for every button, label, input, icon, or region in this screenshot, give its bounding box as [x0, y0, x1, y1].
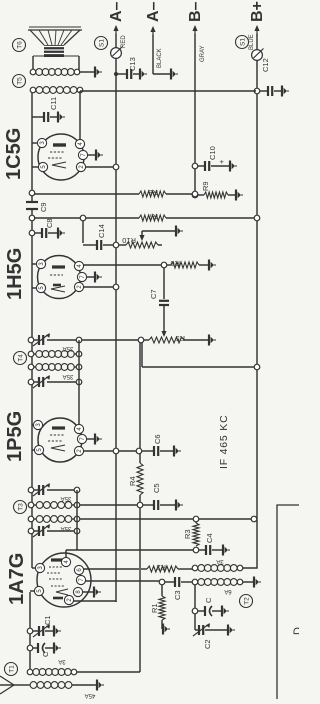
capacitor C antenna trimmer [27, 645, 33, 651]
resistor R10 volume [119, 244, 127, 246]
svg-text:R4: R4 [128, 476, 137, 486]
svg-text:R2: R2 [156, 563, 166, 572]
svg-text:C12: C12 [261, 58, 270, 72]
svg-text:C4: C4 [205, 533, 214, 543]
svg-text:S1: S1 [98, 39, 105, 47]
svg-text:35A: 35A [63, 345, 74, 351]
resistor R8 [29, 190, 35, 196]
tube 1H5G envelope [38, 256, 81, 299]
svg-text:R1: R1 [150, 603, 159, 613]
label T1 [5, 663, 18, 676]
svg-text:1P5G: 1P5G [4, 411, 26, 462]
svg-text:C1: C1 [43, 615, 52, 625]
wire T4 trimmer to R5 junction [82, 339, 140, 341]
resistor R6 [167, 264, 172, 266]
wire T3 link to 1A7G grid line [76, 531, 78, 550]
pin 4 1A7G [61, 557, 70, 566]
capacitor C13 [116, 73, 126, 75]
tube 1P5G filament [51, 445, 65, 451]
wire T5 primary to B+ [80, 90, 256, 92]
svg-text:T6: T6 [16, 41, 23, 49]
pin 3 1A7G [35, 563, 44, 572]
svg-text:BLUE: BLUE [249, 34, 255, 50]
tube 1A7G filament [56, 589, 68, 595]
svg-text:C14: C14 [97, 224, 106, 238]
resistor R4 [137, 502, 143, 508]
pin 3 1C5G [37, 138, 46, 147]
capacitor C14 [83, 244, 96, 246]
svg-text:6A: 6A [224, 588, 231, 594]
wire T1 secondary to AVC bus [77, 671, 141, 673]
wire T3 coil1 to C5 junction [80, 504, 138, 506]
pin 5 1A7G [34, 586, 43, 595]
resistor R5 volume [144, 339, 150, 341]
tube 1A7G osc anode [53, 597, 63, 600]
capacitor C9 [26, 208, 38, 210]
svg-text:C13: C13 [128, 57, 137, 71]
wire 1C5G pin3 to bus [32, 142, 38, 144]
oscillator coil T2 winding 1 [192, 565, 198, 571]
tube 1C5G filament [52, 162, 66, 168]
wire 1H5G pin5 to bus [32, 287, 37, 289]
svg-text:S1: S1 [239, 38, 246, 46]
pin 7 1P5G [77, 434, 86, 443]
tube 1C5G grids [50, 151, 64, 153]
svg-text:R5: R5 [175, 334, 185, 343]
svg-text:1A7G: 1A7G [6, 553, 28, 605]
resistor R9 [192, 192, 198, 198]
wire 1A7G pin7 line [86, 580, 161, 582]
junction C14 filament bus [113, 242, 119, 248]
svg-text:45A: 45A [85, 692, 96, 698]
junction R3 C4 [193, 547, 199, 553]
tube 1A7G plate [51, 558, 64, 561]
svg-text:GRAY: GRAY [200, 45, 206, 62]
svg-text:T1: T1 [8, 665, 15, 673]
ground T5 secondary [79, 71, 94, 73]
capacitor C4 [199, 549, 206, 551]
wire 1P5G pin3 to bus [32, 424, 34, 426]
pin 4 1H5G [74, 261, 83, 270]
label T2 [240, 595, 253, 608]
wire 1A7G pin2 to bus end [74, 600, 117, 602]
svg-text:35A: 35A [61, 495, 72, 501]
junction screen line [80, 215, 86, 221]
tube 1C5G plate [53, 143, 66, 146]
svg-text:A–: A– [145, 1, 162, 22]
svg-text:B–: B– [187, 1, 204, 22]
svg-text:3A: 3A [216, 558, 223, 564]
resistor R3 [193, 523, 199, 546]
ground 1A7G pin8 [83, 591, 94, 593]
wire 1H5G pin3 to bus [32, 263, 37, 265]
pin 5 1C5G [38, 162, 47, 171]
capacitor C10 [192, 163, 198, 169]
label S1 b [236, 36, 249, 49]
tube 1P5G envelope [38, 418, 82, 462]
wire AVC bus [139, 495, 141, 672]
wire 1C5G pin2 to filament bus [86, 166, 117, 168]
capacitor C8 [29, 230, 35, 236]
wire A- filament bus [115, 34, 117, 602]
svg-text:R9: R9 [201, 181, 210, 191]
svg-text:3A: 3A [58, 658, 65, 664]
pin 6 1A7G [74, 565, 83, 574]
label S1 a [95, 37, 108, 50]
svg-text:1H5G: 1H5G [4, 248, 26, 300]
terminal B+ (blue) [256, 28, 258, 35]
label T3 [14, 501, 27, 514]
svg-text:T4: T4 [17, 354, 24, 362]
capacitor C3 [165, 581, 175, 583]
ground 1P5G pin7 [87, 438, 95, 440]
wire 1P5G pin5 to bus [32, 449, 35, 451]
antenna [0, 676, 14, 694]
junction R6 [161, 262, 167, 268]
antenna coil T1 secondary [27, 669, 33, 675]
pin 4 1P5G [74, 424, 83, 433]
svg-text:IF 465 KC: IF 465 KC [218, 415, 230, 469]
wire T1 secondary top line [29, 592, 31, 672]
svg-text:C: C [41, 651, 50, 657]
wire detector to volume [163, 268, 165, 300]
svg-text:RED: RED [121, 35, 127, 48]
transformer T3 [28, 487, 34, 493]
tube 1H5G plate [52, 265, 65, 268]
tube 1P5G grids [50, 434, 64, 436]
wire 1C5G pin5 to bus [32, 166, 39, 168]
tube 1H5G filament [51, 286, 65, 292]
svg-text:35A: 35A [63, 373, 74, 379]
svg-text:D: D [292, 627, 299, 635]
battery box [277, 505, 299, 699]
wire 1A7G pin5 to T1 line [30, 590, 35, 592]
svg-text:R6: R6 [170, 259, 180, 268]
wire T4 to 1P5G grid [78, 382, 80, 429]
junction C13 [114, 72, 118, 76]
svg-text:35A: 35A [61, 525, 72, 531]
tube 1C5G envelope [38, 134, 84, 180]
svg-text:C7: C7 [149, 289, 158, 299]
tube 1H5G grid [50, 274, 63, 276]
pin 2 1P5G [74, 446, 83, 455]
label T5 [13, 75, 26, 88]
pin 5 1H5G [36, 283, 45, 292]
wire 1H5G pin2 to filament bus [84, 286, 117, 288]
capacitor C padder [198, 610, 205, 612]
pin 4 1C5G [75, 139, 84, 148]
ground 1C5G pin7 [88, 154, 96, 156]
svg-text:T3: T3 [17, 503, 24, 511]
terminal A- (red) [115, 28, 117, 35]
junction C12 [254, 88, 260, 94]
svg-text:B+: B+ [249, 1, 266, 22]
pin 3 1H5G [36, 259, 45, 268]
svg-text:T2: T2 [243, 597, 250, 605]
svg-text:A–: A– [108, 1, 125, 22]
wire top signal bus [31, 210, 33, 568]
capacitor C2 oscillator [195, 629, 198, 631]
speaker [32, 56, 34, 72]
svg-text:C3: C3 [173, 590, 182, 600]
pin 5 1P5G [34, 445, 43, 454]
tube 1A7G grids [49, 566, 62, 568]
svg-text:C9: C9 [39, 202, 48, 212]
transformer T5 secondary [30, 69, 36, 75]
label T6 [13, 39, 26, 52]
resistor R7 [29, 215, 35, 221]
transformer T5 primary [30, 87, 36, 93]
capacitor C12 [258, 90, 267, 92]
terminal A- (black) [152, 35, 154, 74]
transformer T4 [28, 337, 34, 343]
svg-text:C2: C2 [203, 639, 212, 649]
svg-text:C8: C8 [45, 218, 54, 228]
ground T2 winding 2 [243, 581, 254, 583]
svg-text:C: C [204, 597, 213, 603]
switch S1 contact a [111, 48, 122, 59]
pin 2 1H5G [74, 282, 83, 291]
svg-text:C11: C11 [49, 97, 58, 110]
junction R5 [138, 337, 144, 343]
svg-text:R3: R3 [183, 529, 192, 539]
svg-text:C10: C10 [208, 146, 217, 160]
resistor R1 [161, 585, 163, 597]
wire 1P5G pin2 chain [84, 450, 117, 452]
capacitor C1 tuning [27, 628, 33, 634]
wire 1C5G pin4 to primary [79, 143, 81, 145]
wire B- bus [194, 34, 196, 195]
svg-text:C5: C5 [152, 483, 161, 493]
wire B+ bus [240, 34, 257, 568]
pin 7 1C5G [78, 150, 87, 159]
svg-text:+: + [217, 159, 226, 164]
tube 1P5G plate [52, 426, 65, 429]
capacitor C11 [32, 116, 43, 118]
junction padder [192, 608, 198, 614]
switch S1 contact b [252, 50, 263, 61]
wire T3 coil2 to B+ [80, 518, 194, 520]
tube 1A7G envelope [37, 553, 91, 607]
label T4 [14, 352, 27, 365]
svg-text:C6: C6 [153, 434, 162, 444]
svg-text:R7: R7 [148, 212, 158, 221]
resistor R2 [141, 568, 147, 570]
capacitor C6 [142, 450, 154, 452]
wire padder line [194, 585, 196, 631]
pin 7 1A7G [76, 575, 85, 584]
wire 1A7G pin3 to bus [32, 567, 36, 569]
antenna coil T1 primary [30, 682, 37, 689]
capacitor C5 [143, 504, 154, 506]
terminal B- (gray) [194, 28, 196, 35]
pin 3 1P5G [33, 420, 42, 429]
wire 1H5G pin4 down [84, 264, 163, 266]
wire 1A7G pin4 line [65, 550, 67, 558]
svg-text:T5: T5 [16, 77, 23, 85]
pin 2 1C5G [76, 162, 85, 171]
ground 1H5G pin7 [87, 276, 95, 278]
tube 1H5G diode plate [53, 284, 61, 287]
ground A- black lead [153, 73, 170, 75]
svg-text:1C5G: 1C5G [3, 128, 25, 180]
wire 1A7G pin6 line [84, 568, 140, 570]
pin 2 1A7G [64, 595, 73, 604]
wiper R10 [139, 235, 144, 241]
svg-text:BLACK: BLACK [157, 48, 163, 68]
svg-text:R10: R10 [122, 236, 136, 245]
svg-text:R8: R8 [148, 188, 158, 197]
oscillator coil T2 winding 2 [192, 579, 198, 585]
pin 8 1A7G [73, 587, 82, 596]
wire B+ to T4 [254, 364, 260, 370]
pin 7 1H5G [77, 272, 86, 281]
